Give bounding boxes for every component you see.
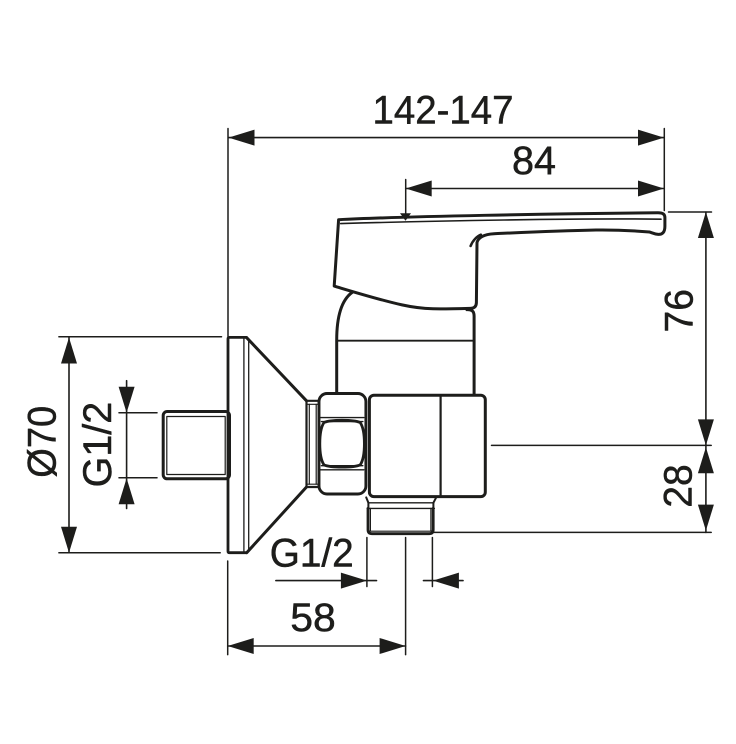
dim 76 line (705, 212, 707, 445)
cone bottom slope (247, 487, 307, 553)
extension line outlet right (431, 538, 433, 587)
lever handle (334, 213, 665, 309)
svg-text:G1/2: G1/2 (270, 532, 354, 576)
dim 84 line (406, 188, 664, 190)
body cylinder right edge (467, 310, 474, 395)
dim 58 line (228, 645, 406, 647)
flange bottom line (368, 502, 433, 504)
mixer body block (369, 395, 485, 496)
cone top slope (247, 338, 307, 401)
cone neck (307, 401, 319, 487)
body cylinder left edge (337, 293, 352, 394)
svg-text:Ø70: Ø70 (21, 406, 65, 478)
wall plate (228, 337, 247, 552)
dim 142-147 left arrow (229, 130, 255, 146)
wall plate inner line (243, 339, 245, 552)
extension tick top (fitting top) (119, 412, 157, 414)
extension line 58 center (outlet axis) (405, 538, 407, 655)
hex nut middle barrel (320, 420, 365, 467)
cartridge joint line (337, 340, 474, 342)
outlet flange left slant (366, 497, 368, 502)
extension line outlet left (366, 538, 368, 587)
cone base edge (248, 340, 250, 551)
lever top inner line (341, 219, 661, 224)
hex nut outline (319, 394, 366, 495)
block divider (440, 395, 442, 496)
lever lip spur (471, 235, 481, 246)
outlet flange right slant (433, 497, 436, 502)
extension line O70 bottom (59, 552, 220, 554)
tick arrow on lever top (400, 213, 411, 221)
extension line 58 left (wall) (227, 561, 229, 655)
extension line right (lever tip) (663, 129, 665, 211)
extension line 28 bottom (outlet bottom) (434, 531, 711, 533)
extension tick bottom (fitting bottom) (119, 477, 157, 479)
pipe chamfer line (370, 530, 432, 532)
hex nut facet line top (321, 417, 364, 419)
dim 58 right arrow (380, 638, 406, 654)
dim 142-147 line (229, 137, 665, 139)
svg-text:28: 28 (657, 464, 701, 508)
extension line left (wall) (227, 129, 229, 337)
svg-text:58: 58 (290, 596, 336, 640)
dim 84 right arrow (638, 181, 664, 197)
dim O70 top arrow (61, 338, 77, 364)
dim G1/2 left bottom arrow (119, 478, 135, 504)
outlet collar (367, 503, 369, 509)
dim 84 left arrow (406, 181, 432, 197)
dim 28 top arrow (698, 447, 714, 473)
hex nut facet line bottom (322, 465, 363, 467)
dim G1/2 bottom right arrow (424, 580, 464, 582)
extension line 84 center (405, 180, 407, 215)
thread inner lines (369, 508, 371, 531)
fitting inner line (167, 417, 225, 475)
svg-text:142-147: 142-147 (373, 89, 514, 133)
dim O70 bottom arrow (61, 527, 77, 553)
extension line mid (body bottom) (492, 444, 712, 446)
svg-text:84: 84 (512, 139, 556, 183)
G1/2 square fitting (163, 412, 229, 479)
outlet threaded pipe (368, 508, 433, 533)
dim 76 bottom arrow (698, 419, 714, 445)
dim O70 line (68, 338, 70, 553)
svg-text:G1/2: G1/2 (76, 402, 120, 488)
dim 142-147 right arrow (638, 130, 664, 146)
dim G1/2 left top arrow (119, 387, 135, 413)
svg-text:76: 76 (657, 289, 701, 333)
dim 76 top arrow (698, 212, 714, 238)
dim 28 line (705, 445, 707, 532)
dim 28 bottom arrow (698, 505, 714, 531)
extension line O70 top (59, 336, 222, 338)
extension line 76 top (669, 211, 712, 213)
neck inner detail (308, 404, 310, 484)
dim G1/2 left line (126, 381, 128, 509)
dim 58 left arrow (228, 638, 254, 654)
dim G1/2 bottom left arrow (276, 580, 377, 582)
